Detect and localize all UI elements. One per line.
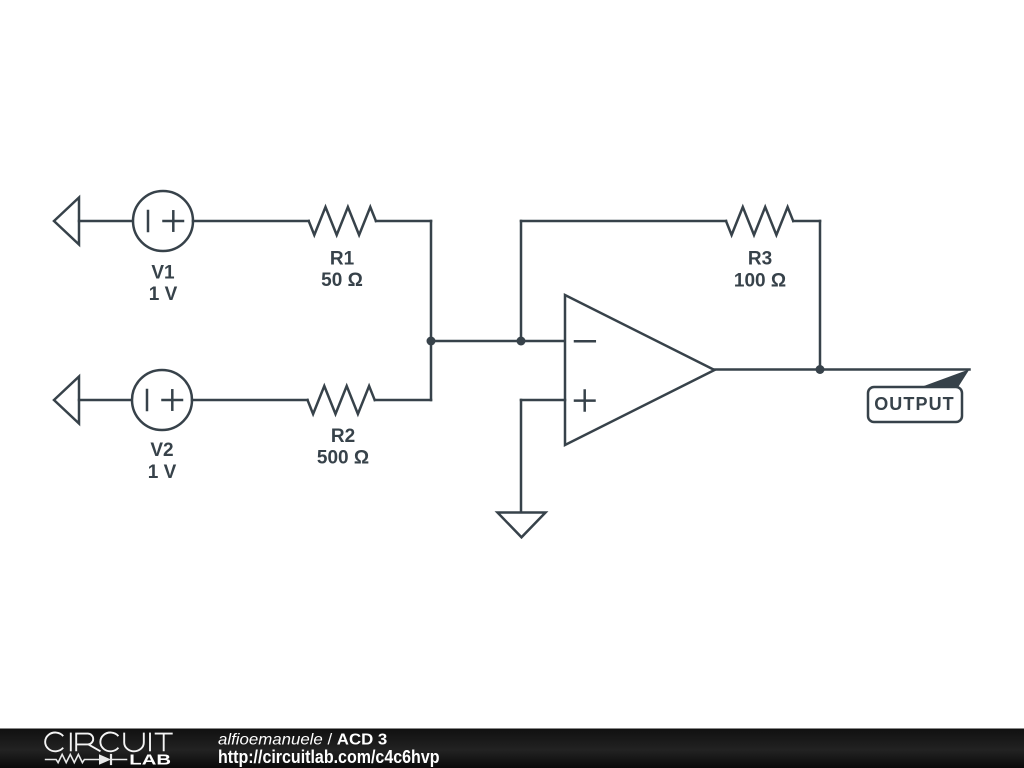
wire — [375, 399, 431, 402]
resistor R2 — [308, 386, 375, 414]
footer bar — [0, 729, 1024, 768]
svg-text:V1: V1 — [151, 262, 175, 283]
svg-text:alfioemanuele / ACD 3: alfioemanuele / ACD 3 — [218, 731, 387, 748]
svg-text:R1: R1 — [330, 249, 355, 270]
svg-text:100 Ω: 100 Ω — [734, 270, 786, 291]
label R2 value — [317, 426, 369, 469]
svg-text:V2: V2 — [150, 440, 173, 461]
label R3 value — [734, 249, 786, 292]
svg-text:1 V: 1 V — [149, 284, 178, 305]
wire — [431, 340, 565, 343]
node B junction dot — [517, 337, 526, 346]
label V1 value — [149, 262, 178, 305]
wire — [520, 221, 523, 341]
label R1 value — [321, 249, 363, 292]
footer author / title line — [218, 731, 387, 748]
svg-text:R2: R2 — [331, 426, 355, 447]
svg-text:http://circuitlab.com/c4c6hvp: http://circuitlab.com/c4c6hvp — [218, 747, 440, 767]
svg-text:R3: R3 — [748, 249, 772, 270]
logo resistor-diode squiggle — [45, 754, 128, 765]
terminal arrow A2 (V2 left) — [54, 377, 79, 424]
wire — [793, 220, 820, 223]
label OUTPUT text — [874, 394, 955, 414]
voltage source V2 — [132, 370, 192, 430]
op-amp U1 — [565, 295, 715, 445]
svg-text:500 Ω: 500 Ω — [317, 448, 369, 469]
wire — [715, 368, 970, 371]
ground — [498, 513, 546, 538]
voltage source V1 — [133, 191, 193, 251]
svg-text:LAB: LAB — [129, 752, 171, 768]
terminal arrow A1 (V1 left) — [54, 198, 79, 245]
wire — [193, 220, 309, 223]
label V2 value — [148, 440, 177, 483]
wire — [192, 399, 308, 402]
resistor R3 — [726, 207, 793, 235]
footer url line — [218, 747, 440, 767]
svg-text:1 V: 1 V — [148, 462, 177, 483]
wire — [819, 221, 822, 370]
output node junction dot — [816, 365, 825, 374]
wire — [521, 399, 565, 402]
logo CIRCUIT wordmark — [45, 733, 173, 752]
wire — [79, 220, 133, 223]
wire — [376, 220, 431, 223]
svg-text:OUTPUT: OUTPUT — [874, 394, 955, 414]
resistor R1 — [309, 207, 376, 235]
wire — [521, 220, 726, 223]
flag OUTPUT — [868, 369, 970, 422]
wire — [520, 400, 523, 512]
node A junction dot — [427, 337, 436, 346]
svg-text:50 Ω: 50 Ω — [321, 270, 363, 291]
wire — [79, 399, 132, 402]
wire — [430, 221, 433, 400]
logo LAB wordmark — [129, 752, 171, 768]
